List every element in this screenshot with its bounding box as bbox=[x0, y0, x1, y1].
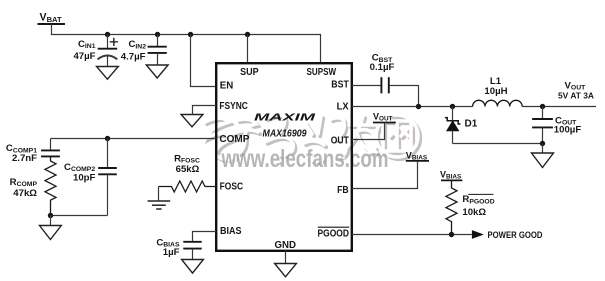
node SUP/rail bbox=[245, 32, 250, 37]
wire VBAT to rail bbox=[51, 24, 53, 35]
svg-text:47kΩ: 47kΩ bbox=[13, 188, 37, 199]
inductor L1 10uH bbox=[473, 76, 523, 107]
wire node to ground bbox=[50, 216, 52, 226]
node VOUT terminal at OUT pin bbox=[373, 111, 396, 122]
wire GND pin to ground bbox=[285, 251, 287, 264]
capacitor CCOMP2 10pF bbox=[64, 139, 117, 216]
op-amp U1 MAX16909 IC body bbox=[216, 63, 352, 251]
svg-text:MAX16909: MAX16909 bbox=[263, 128, 307, 139]
wire rail to SUP bbox=[247, 35, 249, 64]
ground COUT bbox=[532, 153, 554, 168]
capacitor CIN2 4.7uF bbox=[121, 35, 167, 66]
svg-text:COMP: COMP bbox=[219, 134, 249, 145]
node CBST/LX bbox=[416, 104, 421, 109]
diode D1 schottky bbox=[445, 107, 478, 144]
node CIN2/rail bbox=[155, 32, 160, 37]
node COUT/D1 ground bbox=[540, 141, 545, 146]
svg-text:FOSC: FOSC bbox=[220, 182, 244, 193]
ground CIN1 bbox=[97, 67, 119, 80]
wire RFOSC to ground bbox=[158, 187, 160, 202]
wire D1 anode to COUT ground bbox=[453, 143, 543, 145]
node VOUT/COUT bbox=[540, 104, 545, 109]
VBAT supply terminal bbox=[38, 12, 66, 25]
capacitor CIN1 47uF polarized bbox=[73, 35, 118, 67]
svg-text:MAXIM: MAXIM bbox=[254, 113, 316, 124]
svg-text:10µH: 10µH bbox=[484, 86, 507, 97]
wire OUT pin to VOUT terminal bbox=[352, 123, 385, 140]
ground FSYNC bbox=[181, 115, 203, 127]
svg-text:SUP: SUP bbox=[240, 67, 259, 78]
svg-text:LX: LX bbox=[337, 102, 349, 113]
node VBIAS terminal at FB bbox=[406, 150, 429, 161]
node RPGOOD/PGOOD bbox=[449, 232, 454, 237]
ground comp network bbox=[40, 226, 62, 240]
wire BIAS to CBIAS bbox=[193, 232, 217, 242]
svg-text:65kΩ: 65kΩ bbox=[176, 164, 200, 175]
svg-text:PGOOD: PGOOD bbox=[318, 229, 350, 240]
ground CIN2 bbox=[146, 65, 168, 78]
svg-text:4.7µF: 4.7µF bbox=[121, 51, 146, 62]
svg-text:47µF: 47µF bbox=[73, 51, 95, 62]
svg-text:BIAS: BIAS bbox=[220, 226, 242, 237]
svg-text:EN: EN bbox=[220, 80, 234, 91]
node CCOMP2/COMP bbox=[105, 136, 110, 141]
resistor RCOMP 47k bbox=[10, 156, 56, 215]
svg-text:FSYNC: FSYNC bbox=[219, 101, 248, 112]
svg-text:OUT: OUT bbox=[331, 136, 349, 147]
svg-text:SUPSW: SUPSW bbox=[307, 67, 337, 78]
wire PGOOD line bbox=[352, 234, 472, 236]
resistor RPGOOD 10k bbox=[446, 180, 495, 234]
svg-text:5V AT 3A: 5V AT 3A bbox=[558, 91, 595, 101]
ground RFOSC (earth) bbox=[148, 201, 171, 209]
svg-text:2.7nF: 2.7nF bbox=[12, 153, 37, 164]
svg-text:GND: GND bbox=[274, 240, 296, 251]
node VBIAS terminal at RPGOOD bbox=[440, 169, 462, 180]
capacitor CBIAS 1uF bbox=[156, 238, 201, 260]
wire BST to CBST bbox=[352, 85, 382, 87]
svg-text:10kΩ: 10kΩ bbox=[462, 207, 486, 218]
wire COMP line bbox=[51, 138, 217, 140]
wire input rail bbox=[51, 34, 321, 36]
svg-text:0.1µF: 0.1µF bbox=[370, 62, 395, 73]
wire comp network bottom bbox=[51, 215, 108, 217]
svg-text:FB: FB bbox=[337, 185, 349, 196]
capacitor CCOMP1 2.7nF bbox=[6, 139, 60, 165]
POWER GOOD output arrow bbox=[472, 230, 484, 239]
svg-text:POWER GOOD: POWER GOOD bbox=[488, 230, 543, 240]
node RCOMP/CCOMP2 bottom bbox=[48, 213, 53, 218]
wire FSYNC to ground bbox=[193, 106, 217, 115]
wire LX line bbox=[352, 106, 596, 108]
wire CBST to LX node bbox=[389, 86, 419, 107]
ground CBIAS bbox=[182, 260, 204, 274]
wire rail to EN bbox=[191, 35, 217, 87]
node CIN1/rail bbox=[105, 32, 110, 37]
pin PGOOD (active low) bbox=[318, 227, 350, 239]
svg-text:100µF: 100µF bbox=[554, 125, 582, 136]
wire rail to SUPSW bbox=[320, 34, 322, 64]
wire COUT node to ground bbox=[542, 144, 544, 154]
resistor RFOSC 65k bbox=[159, 153, 217, 192]
node EN/rail bbox=[188, 32, 193, 37]
capacitor COUT 100uF bbox=[532, 107, 581, 144]
svg-text:1µF: 1µF bbox=[163, 247, 180, 258]
capacitor CBST 0.1uF bbox=[370, 53, 395, 94]
ground GND pin bbox=[275, 264, 297, 277]
node D1/LX bbox=[450, 104, 455, 109]
wire FB to VBIAS terminal bbox=[352, 161, 418, 189]
svg-text:BST: BST bbox=[331, 79, 349, 90]
svg-text:www.elecfans.com: www.elecfans.com bbox=[221, 146, 389, 173]
svg-text:10pF: 10pF bbox=[73, 172, 96, 183]
VOUT output label bbox=[558, 80, 595, 100]
svg-text:D1: D1 bbox=[465, 119, 478, 130]
